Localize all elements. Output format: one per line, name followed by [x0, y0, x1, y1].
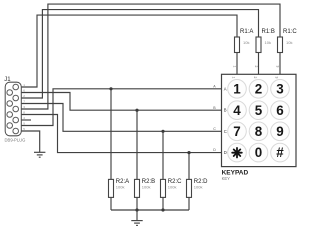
node A junction — [109, 87, 112, 90]
net labels A-D at keypad left pins — [213, 84, 216, 152]
wire R2:A bottom to rail — [110, 197, 112, 210]
svg-text:10k: 10k — [265, 40, 271, 45]
svg-text:B: B — [224, 108, 227, 113]
svg-text:3: 3 — [275, 66, 279, 68]
keypad top pin labels inside (rotated) — [231, 77, 278, 79]
pin 9 circle — [13, 128, 19, 134]
resistor R2:B — [135, 179, 156, 197]
resistor R1:C — [278, 29, 298, 53]
wire row A net (pin8 to keypad A) — [13, 89, 222, 126]
wire row B net (pin2 to keypad B) — [13, 93, 222, 111]
pin numbers — [23, 83, 25, 131]
resistor R1:A — [235, 29, 254, 53]
svg-text:R1:C: R1:C — [283, 29, 297, 35]
wire row D down to R2:D — [188, 153, 190, 180]
wire row D net (pin6 to keypad D) — [13, 115, 222, 153]
wire pin9 to ground — [19, 131, 40, 152]
svg-text:4: 4 — [233, 103, 241, 118]
wire R1:A bottom to keypad col1 — [236, 53, 238, 75]
connector J1 DB9-PLUG body — [4, 77, 25, 143]
svg-text:R1:A: R1:A — [240, 29, 253, 35]
svg-text:100k: 100k — [142, 184, 151, 189]
wire R2:B bottom to rail and ground — [136, 197, 138, 220]
node C junction — [161, 130, 164, 133]
svg-text:6: 6 — [276, 103, 283, 118]
svg-text:10k: 10k — [243, 40, 249, 45]
keypad row pin letters inside — [224, 86, 227, 155]
pin 3 circle — [13, 95, 19, 101]
resistor R1:B — [256, 29, 275, 53]
svg-text:DB9-PLUG: DB9-PLUG — [5, 138, 26, 143]
svg-text:0: 0 — [255, 145, 262, 160]
svg-text:100k: 100k — [168, 184, 177, 189]
svg-text:10k: 10k — [286, 40, 292, 45]
svg-text:3: 3 — [274, 77, 278, 79]
svg-text:100k: 100k — [194, 184, 203, 189]
svg-text:C: C — [213, 127, 216, 131]
wire R1:C bottom to keypad col3 — [279, 53, 281, 75]
svg-text:A: A — [224, 86, 227, 91]
svg-text:2: 2 — [253, 77, 257, 79]
svg-text:2: 2 — [254, 66, 258, 68]
svg-text:D: D — [213, 148, 216, 152]
svg-text:#: # — [276, 145, 284, 160]
svg-text:3: 3 — [276, 81, 283, 96]
pin 8 circle — [7, 123, 13, 129]
wire stub pin7 unconnected — [19, 119, 32, 121]
resistor R2:D — [187, 179, 209, 197]
pin 4 circle — [7, 101, 13, 107]
keypad button circles — [228, 80, 290, 162]
svg-text:KEY: KEY — [222, 176, 231, 181]
svg-text:8: 8 — [255, 124, 263, 139]
svg-text:1: 1 — [233, 81, 241, 96]
wire net pin3 to R1:B — [19, 10, 259, 98]
svg-text:1: 1 — [232, 66, 236, 68]
wire R2:C bottom to rail — [162, 197, 164, 210]
wire row C down to R2:C — [162, 131, 164, 179]
svg-text:5: 5 — [255, 103, 263, 118]
wire ground rail — [111, 209, 189, 211]
svg-text:R1:B: R1:B — [262, 29, 275, 35]
rail junction at R2:B — [135, 208, 138, 211]
node B junction — [135, 109, 138, 112]
wire row B down to R2:B — [136, 110, 138, 179]
pin 2 circle — [7, 90, 13, 96]
wire row A down to R2:A — [110, 89, 112, 180]
pin 1 circle — [13, 84, 19, 90]
wire R1:B bottom to keypad col2 — [258, 53, 260, 75]
pin 7 circle — [13, 117, 19, 123]
node D junction — [187, 151, 190, 154]
wire row C net (pin4 to keypad C) — [13, 104, 222, 132]
resistor R2:A — [109, 179, 130, 197]
ground (left, DB9 pin9) — [34, 152, 45, 157]
keypad star key glyph — [232, 148, 242, 158]
svg-text:100k: 100k — [116, 184, 125, 189]
svg-text:J1: J1 — [4, 77, 11, 83]
svg-text:9: 9 — [276, 124, 283, 139]
pin number labels at keypad top pins (rotated) — [232, 66, 279, 68]
resistor R2:C — [161, 179, 183, 197]
svg-text:1: 1 — [231, 77, 235, 79]
pin 6 circle — [7, 112, 13, 118]
keypad digits — [233, 81, 284, 160]
svg-text:2: 2 — [255, 81, 262, 96]
wire R2:D bottom to rail — [188, 197, 190, 210]
wire net pin1 to R1:A — [19, 15, 238, 87]
svg-text:C: C — [224, 129, 227, 134]
ground (bottom rail) — [131, 221, 142, 226]
rail junction at R2:C — [161, 208, 164, 211]
svg-text:D: D — [224, 150, 227, 155]
keypad U-KEYPAD body — [222, 74, 297, 181]
wire net pin5 to R1:C — [19, 4, 281, 109]
pin 5 circle — [13, 106, 19, 112]
svg-text:7: 7 — [233, 124, 240, 139]
